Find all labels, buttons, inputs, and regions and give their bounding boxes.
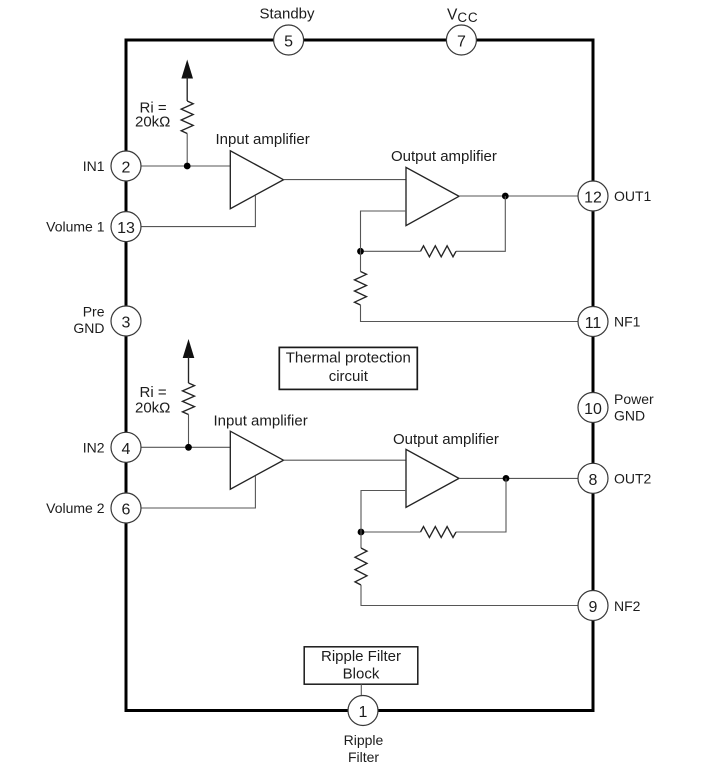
pin 8 OUT2 [578, 463, 608, 493]
svg-text:20kΩ: 20kΩ [135, 114, 170, 131]
wire Ri1 bottom to node A junction [186, 134, 188, 167]
wire pin4 IN2 to input amplifier U3 [128, 446, 231, 448]
wire pin2 IN1 to input amplifier U1 [128, 165, 231, 167]
svg-text:6: 6 [122, 502, 131, 519]
svg-text:Ri =: Ri = [140, 384, 167, 401]
svg-text:Volume 1: Volume 1 [46, 219, 105, 235]
wire Ri2 bottom to node C junction [188, 415, 190, 448]
svg-text:20kΩ: 20kΩ [135, 400, 170, 417]
svg-text:Output amplifier: Output amplifier [393, 431, 499, 448]
svg-text:GND: GND [73, 320, 104, 336]
svg-text:IN2: IN2 [83, 439, 105, 455]
wire R2 to pin11 NF1 [361, 305, 592, 322]
pin 5 Standby [274, 25, 304, 55]
svg-text:Standby: Standby [259, 6, 315, 23]
svg-text:11: 11 [585, 315, 602, 332]
junction node C (IN2 / Ri2) [185, 444, 192, 451]
pin 4 IN2 [111, 432, 141, 462]
svg-text:4: 4 [122, 441, 131, 458]
junction node OUT2 feedback tap [503, 475, 510, 482]
svg-text:IN1: IN1 [83, 158, 105, 174]
pin 1 Ripple Filter [348, 696, 378, 726]
svg-text:7: 7 [457, 34, 466, 51]
resistor R2 NF1 (channel 1) [355, 272, 367, 306]
pin 9 NF2 [578, 591, 608, 621]
svg-text:Input amplifier: Input amplifier [214, 413, 308, 430]
IC outer boundary box [126, 40, 593, 711]
arrow to internal bias (channel 2) [183, 339, 195, 358]
wire node D down to resistor R4 [360, 532, 362, 548]
svg-text:circuit: circuit [329, 368, 369, 385]
wire node B to U2 inverting input [361, 211, 407, 251]
resistor R3 feedback (channel 2) [421, 527, 457, 538]
svg-text:13: 13 [117, 220, 135, 237]
svg-text:Volume 2: Volume 2 [46, 500, 105, 516]
svg-text:NF1: NF1 [614, 314, 641, 330]
pin 2 IN1 [111, 151, 141, 181]
wire U1 output to output amplifier U2 [284, 179, 407, 181]
svg-text:Thermal protection: Thermal protection [286, 350, 411, 367]
arrow to internal bias (channel 1) [181, 60, 193, 79]
wire U4 output to pin8 OUT2 [459, 477, 591, 479]
svg-text:12: 12 [584, 190, 602, 207]
junction node A (IN1 / Ri1) [184, 163, 191, 170]
pin 10 Power GND [578, 393, 608, 423]
wire node D to U4 inverting input [361, 491, 406, 533]
svg-text:OUT2: OUT2 [614, 470, 652, 486]
ripple filter block [304, 647, 418, 684]
wire R1 to node B [361, 250, 421, 252]
pin 12 OUT1 [578, 181, 608, 211]
resistor R4 NF2 (channel 2) [355, 548, 367, 585]
junction node D (feedback / NF2) [358, 529, 365, 536]
svg-text:NF2: NF2 [614, 598, 641, 614]
resistor R1 feedback (channel 1) [421, 246, 457, 257]
wire ripple filter block to pin1 [360, 684, 362, 696]
svg-text:3: 3 [122, 315, 131, 332]
pin 13 Volume 1 [111, 212, 141, 242]
thermal protection circuit block [279, 347, 417, 389]
wire OUT1 tap down to feedback resistor R1 [456, 196, 505, 251]
pin 6 Volume 2 [111, 493, 141, 523]
wire arrow stem channel 1 [186, 77, 188, 101]
resistor Ri2 20kΩ [183, 383, 195, 415]
svg-text:Pre: Pre [83, 304, 105, 320]
svg-text:Input amplifier: Input amplifier [216, 131, 310, 148]
wire OUT2 tap down to feedback resistor R3 [456, 478, 506, 532]
svg-text:2: 2 [122, 160, 131, 177]
wire pin13 Volume 1 feedback to U1 [128, 195, 255, 226]
wire arrow stem channel 2 [188, 357, 190, 384]
pin 11 NF1 [578, 307, 608, 337]
svg-text:1: 1 [359, 704, 368, 721]
wire node B down to resistor R2 [360, 251, 362, 271]
op-amp U4 output amplifier (channel 2) [406, 449, 459, 507]
svg-text:Ripple Filter: Ripple Filter [321, 648, 401, 665]
svg-text:10: 10 [584, 401, 602, 418]
svg-text:GND: GND [614, 408, 645, 424]
svg-text:Output amplifier: Output amplifier [391, 148, 497, 165]
op-amp U2 output amplifier (channel 1) [406, 167, 459, 225]
pin 7 VCC [446, 25, 476, 55]
svg-text:Ripple: Ripple [344, 732, 384, 748]
wire pin6 Volume 2 feedback to U3 [128, 476, 255, 508]
svg-text:9: 9 [589, 599, 598, 616]
op-amp U1 input amplifier (channel 1) [230, 151, 283, 209]
resistor Ri1 20kΩ [181, 101, 193, 134]
wire U2 output to pin12 OUT1 [459, 195, 591, 197]
svg-text:8: 8 [589, 472, 598, 489]
svg-text:Block: Block [343, 665, 380, 682]
svg-text:VCC: VCC [447, 7, 478, 26]
junction node B (feedback / NF1) [357, 248, 364, 255]
svg-text:OUT1: OUT1 [614, 188, 652, 204]
svg-text:5: 5 [284, 34, 293, 51]
wire R4 to pin9 NF2 [361, 585, 591, 606]
junction node OUT1 feedback tap [502, 193, 509, 200]
op-amp U3 input amplifier (channel 2) [230, 431, 283, 489]
svg-text:Filter: Filter [348, 749, 379, 765]
wire R3 to node D [361, 531, 421, 533]
pin 3 Pre GND [111, 306, 141, 336]
svg-text:Power: Power [614, 391, 654, 407]
wire U3 output to output amplifier U4 [284, 459, 407, 461]
